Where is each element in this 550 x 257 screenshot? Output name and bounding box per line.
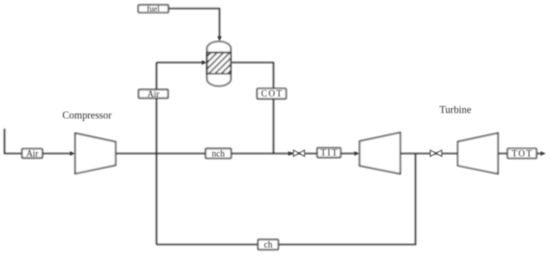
text TIT xyxy=(320,148,339,158)
arrow into combustor left xyxy=(202,60,207,64)
wire turbine T2 outlet xyxy=(498,153,542,155)
svg-text:Turbine: Turbine xyxy=(439,105,471,116)
label box nch xyxy=(206,149,232,159)
label box ch xyxy=(258,240,278,250)
turbine T1 xyxy=(360,133,401,174)
wire turbine T1 to turbine T2 xyxy=(400,153,458,155)
text ch xyxy=(264,240,273,250)
svg-text:ch: ch xyxy=(264,240,273,250)
combustor hatched burner section xyxy=(203,45,263,82)
turbine T2 xyxy=(458,133,498,174)
text Air (left inlet) xyxy=(26,148,38,158)
svg-text:TIT: TIT xyxy=(320,148,339,158)
text Compressor xyxy=(62,111,112,122)
label box Air (left inlet) xyxy=(22,149,42,158)
text TOT xyxy=(512,148,533,158)
compressor C xyxy=(75,133,115,173)
label box Air (combustor inlet) xyxy=(139,90,168,99)
arrow into valve V1 xyxy=(288,151,293,155)
arrow into compressor xyxy=(70,151,75,155)
svg-text:COT: COT xyxy=(261,89,283,99)
svg-text:Air: Air xyxy=(26,148,38,158)
svg-text:Air: Air xyxy=(147,89,159,99)
svg-text:fuel: fuel xyxy=(147,4,160,13)
combustor vessel B1 xyxy=(207,41,231,86)
wire main line compressor to turbine xyxy=(116,153,357,155)
valve V1 xyxy=(294,150,305,156)
text COT xyxy=(261,89,283,99)
text Air (combustor inlet) xyxy=(147,89,159,99)
wire bottom recirculation line xyxy=(157,154,416,245)
arrow into combustor top xyxy=(217,36,221,41)
wire air into combustor xyxy=(157,62,204,64)
wire COT drop line xyxy=(231,63,274,154)
svg-text:TOT: TOT xyxy=(512,148,533,158)
text Turbine xyxy=(439,105,471,116)
arrow into turbine T1 xyxy=(354,151,359,155)
label box TIT xyxy=(317,148,340,158)
label box TOT xyxy=(508,149,537,159)
label box fuel xyxy=(138,5,168,13)
wire fuel-to-combustor xyxy=(168,9,219,39)
text fuel xyxy=(147,4,160,13)
wire left air inlet xyxy=(5,129,73,154)
valve V2 xyxy=(430,150,441,156)
label box COT xyxy=(257,89,286,99)
wire air riser (crosses main line) xyxy=(156,63,158,245)
svg-text:Compressor: Compressor xyxy=(62,111,112,122)
text nch xyxy=(212,149,225,159)
svg-text:nch: nch xyxy=(212,149,225,159)
arrow outlet TOT xyxy=(541,151,546,155)
